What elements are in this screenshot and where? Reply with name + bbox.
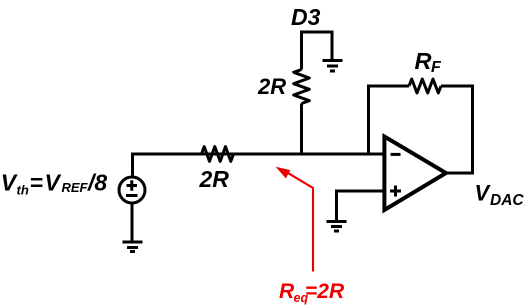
svg-text:VDAC: VDAC (475, 181, 524, 210)
svg-text:2R: 2R (199, 166, 230, 192)
wire corner to source (131, 153, 134, 178)
feedback wire right and down (441, 86, 473, 173)
red annotation arrow (284, 170, 314, 271)
plus sign (op-amp non-inverting input) (390, 186, 401, 197)
red arrowhead (276, 167, 291, 179)
svg-text:D3: D3 (291, 4, 321, 30)
wire source to ground (131, 203, 134, 241)
ground (D3) (323, 61, 343, 72)
ground (op-amp + input) (327, 222, 347, 232)
feedback wire up (369, 86, 410, 156)
main horizontal wire (131, 153, 384, 156)
svg-text:2R: 2R (257, 74, 286, 99)
svg-text:Vth=VREF/8: Vth=VREF/8 (1, 170, 108, 198)
minus sign (op-amp inverting input) (391, 153, 401, 156)
ground (source) (123, 242, 143, 252)
op-amp U1 (384, 137, 446, 211)
voltage source V1 (119, 177, 145, 203)
svg-text:RF: RF (415, 48, 443, 76)
plus sign (source) (127, 180, 138, 191)
svg-text:Req=2R: Req=2R (279, 280, 345, 305)
resistor RF (409, 79, 441, 93)
resistor 2R (vertical) (294, 70, 310, 104)
resistor 2R (horizontal) (202, 147, 234, 162)
wire non-inverting input to ground (337, 191, 385, 220)
minus sign (source) (126, 194, 138, 197)
wire D3 to ground (302, 32, 333, 70)
wire resistor to main node (300, 104, 303, 156)
